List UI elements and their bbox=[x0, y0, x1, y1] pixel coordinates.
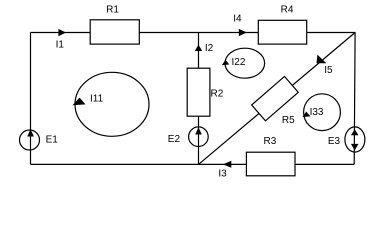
arrow I5 bbox=[317, 55, 327, 64]
wire right bbox=[353, 33, 356, 165]
resistor R3 bbox=[246, 152, 295, 176]
loop I11 bbox=[75, 72, 149, 136]
arrow I4 bbox=[239, 29, 247, 36]
source E1 bbox=[20, 130, 40, 150]
wire top bbox=[31, 32, 356, 34]
resistor R1 bbox=[90, 20, 139, 44]
arrow I3 bbox=[223, 161, 231, 168]
loop I22 bbox=[225, 48, 265, 78]
arrow in E3 down bbox=[351, 144, 359, 151]
resistor R4 bbox=[258, 20, 306, 44]
svg-text:I2: I2 bbox=[205, 43, 214, 54]
svg-text:R2: R2 bbox=[211, 88, 224, 99]
loop arrow I33 bbox=[303, 112, 311, 117]
wire middle vertical bbox=[198, 33, 200, 165]
svg-text:I5: I5 bbox=[324, 65, 333, 76]
loop arrow I22 bbox=[222, 60, 229, 65]
svg-text:E2: E2 bbox=[168, 134, 181, 145]
svg-text:I1: I1 bbox=[56, 40, 65, 51]
svg-text:E1: E1 bbox=[46, 135, 59, 146]
resistor R2 bbox=[187, 68, 210, 116]
svg-text:R4: R4 bbox=[281, 5, 294, 16]
svg-text:E3: E3 bbox=[328, 136, 341, 147]
svg-text:I33: I33 bbox=[310, 107, 324, 118]
svg-text:R3: R3 bbox=[264, 136, 277, 147]
wire diagonal bbox=[199, 33, 356, 165]
svg-text:I3: I3 bbox=[218, 169, 227, 180]
svg-text:R5: R5 bbox=[282, 115, 295, 126]
wire left bbox=[30, 33, 32, 165]
source E2 bbox=[189, 127, 209, 147]
arrow in E3 up bbox=[351, 129, 359, 135]
wire bottom bbox=[31, 163, 355, 165]
arrow I1 bbox=[58, 29, 66, 36]
loop I33 bbox=[304, 94, 341, 131]
svg-text:I4: I4 bbox=[233, 14, 242, 25]
arrow in E1 bbox=[27, 129, 34, 136]
svg-text:I22: I22 bbox=[232, 57, 246, 68]
loop arrow I11 bbox=[73, 98, 86, 106]
arrow I2 bbox=[195, 45, 202, 51]
svg-text:R1: R1 bbox=[106, 5, 119, 16]
resistor R5 bbox=[252, 76, 299, 120]
svg-text:I11: I11 bbox=[90, 94, 104, 105]
source E3 bbox=[345, 127, 365, 152]
arrow in E2 bbox=[195, 127, 202, 134]
